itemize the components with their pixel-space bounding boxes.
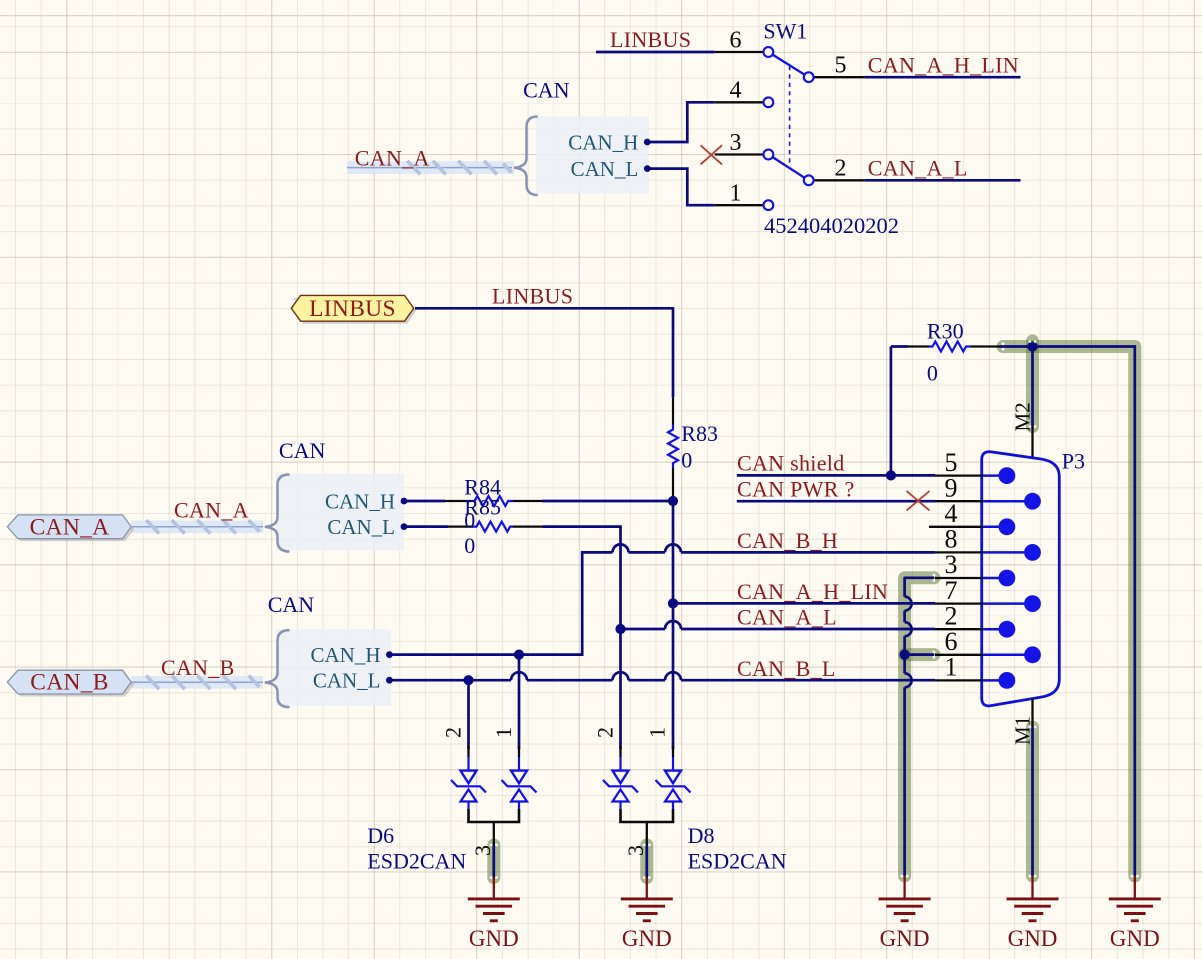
svg-text:M1: M1 bbox=[1011, 716, 1035, 745]
svg-text:GND: GND bbox=[622, 926, 672, 951]
wire M2 to R30 rail bbox=[1031, 347, 1034, 427]
svg-text:CAN: CAN bbox=[523, 78, 570, 103]
wire CAN_A_L to P3 pin 2 with hop bbox=[621, 621, 936, 629]
svg-text:0: 0 bbox=[464, 508, 475, 533]
harness connector brace (CAN_B) bbox=[265, 630, 290, 707]
svg-text:CAN: CAN bbox=[279, 438, 326, 463]
svg-text:SW1: SW1 bbox=[763, 19, 807, 44]
svg-text:P3: P3 bbox=[1062, 449, 1085, 474]
wire CAN_A_H_LIN to P3 pin 7 bbox=[673, 602, 935, 605]
svg-text:1: 1 bbox=[730, 180, 742, 206]
P3 pin 7 bbox=[935, 595, 1041, 612]
D8 TVS element left bbox=[603, 771, 638, 809]
wire R30 left leg down to CAN shield bbox=[890, 347, 893, 476]
resistor R85 bbox=[448, 522, 543, 532]
svg-text:CAN_A_H_LIN: CAN_A_H_LIN bbox=[868, 52, 1019, 77]
svg-text:2: 2 bbox=[835, 156, 847, 182]
svg-text:CAN: CAN bbox=[268, 592, 315, 617]
junction CAN_B_L / D6 pin 2 bbox=[463, 675, 473, 685]
wire GND net P3 pin 3 / pin 6 with hops bbox=[905, 578, 934, 876]
ground GND under D8 bbox=[621, 878, 673, 952]
D8 pin 2 lead bbox=[619, 746, 621, 758]
D8 pin 1 lead bbox=[672, 746, 674, 758]
svg-text:1: 1 bbox=[491, 727, 516, 738]
wire CAN_B_H to P3 pin 8 with hops bbox=[613, 544, 936, 552]
port CAN_A bbox=[7, 514, 134, 541]
svg-text:CAN_L: CAN_L bbox=[571, 157, 639, 181]
wire harness CAN_L to SW1 pin 1 bbox=[647, 169, 714, 206]
harness cable CAN_A (middle) bbox=[132, 520, 264, 534]
svg-text:CAN_B_H: CAN_B_H bbox=[737, 528, 838, 553]
P3 pin 5 bbox=[935, 467, 1015, 484]
SW1 pin 4 line bbox=[715, 101, 764, 103]
svg-text:CAN PWR ?: CAN PWR ? bbox=[737, 476, 855, 501]
wire CAN_A_L from SW1 pin 2 bbox=[865, 179, 1021, 182]
harness entry dot CAN_L (CAN_A) bbox=[401, 523, 408, 530]
harness cable CAN_B bbox=[132, 676, 264, 690]
svg-text:3: 3 bbox=[730, 130, 742, 156]
SW1 arm pole A bbox=[772, 54, 804, 74]
wire M1 to GND bbox=[1031, 727, 1034, 876]
harness entry dot CAN_H (top) bbox=[644, 139, 651, 146]
SW1 contact circles bbox=[764, 47, 814, 210]
P3 pin M1 line bbox=[1031, 698, 1033, 727]
wire CAN_H(A) to R84 bbox=[404, 500, 445, 503]
svg-text:CAN_A: CAN_A bbox=[174, 498, 249, 523]
wire D6 pin 2 drop bbox=[467, 680, 470, 749]
svg-text:CAN_L: CAN_L bbox=[313, 669, 381, 693]
wire R84 to LINBUS junction bbox=[543, 500, 674, 503]
harness connector brace (CAN_A middle) bbox=[265, 475, 290, 552]
D8 TVS element right bbox=[656, 771, 691, 809]
resistor R83 bbox=[668, 397, 678, 496]
connector P3 outline bbox=[982, 452, 1060, 706]
wire D6 pin 3 to GND bbox=[492, 845, 495, 878]
svg-text:CAN_H: CAN_H bbox=[568, 131, 638, 155]
svg-text:2: 2 bbox=[593, 727, 618, 738]
svg-text:R83: R83 bbox=[681, 421, 718, 446]
resistor R30 bbox=[891, 342, 1000, 352]
svg-text:6: 6 bbox=[730, 28, 742, 54]
junction P3 pin 6 / GND drop bbox=[900, 650, 910, 660]
wire harness CAN_H to SW1 pin 4 bbox=[647, 102, 714, 142]
P3 pin 8 bbox=[935, 544, 1041, 561]
wire R30 to GND rail right bbox=[1000, 347, 1135, 877]
svg-text:CAN_A_L: CAN_A_L bbox=[868, 156, 968, 181]
svg-text:D6: D6 bbox=[367, 823, 394, 848]
P3 pin 6 bbox=[935, 646, 1041, 663]
D8 bottom rail and pin 3 bbox=[621, 809, 674, 822]
P3 pin 9 bbox=[935, 493, 1041, 510]
P3 pin 2 bbox=[935, 621, 1015, 638]
harness connector brace (top) bbox=[514, 117, 538, 196]
highlight end markers bbox=[490, 340, 1139, 879]
harness entry dot CAN_H (CAN_A) bbox=[401, 498, 408, 505]
junction CAN shield / R30 bbox=[886, 470, 896, 480]
highlight glow GND net M1 of P3 bbox=[1026, 727, 1039, 876]
svg-text:CAN_B: CAN_B bbox=[30, 670, 109, 696]
SW1 pin 2 line bbox=[814, 179, 865, 181]
svg-text:LINBUS: LINBUS bbox=[610, 27, 691, 52]
svg-text:CAN_B_L: CAN_B_L bbox=[737, 656, 836, 681]
svg-text:2: 2 bbox=[441, 727, 466, 738]
SW1 gang dashed link bbox=[789, 66, 791, 168]
wire D6 pin 1 drop bbox=[518, 655, 521, 749]
harness box CAN (CAN_A middle) bbox=[276, 474, 404, 551]
D6 pin 2 lead bbox=[467, 746, 469, 758]
svg-text:CAN_L: CAN_L bbox=[327, 515, 395, 539]
ground GND pin3/6 net bbox=[879, 876, 931, 951]
svg-text:GND: GND bbox=[1008, 926, 1058, 951]
no-ERC marker at SW1 pin 3 bbox=[701, 145, 723, 164]
SW1 pin 1 line bbox=[715, 204, 764, 206]
wire CAN shield to P3 pin 5 bbox=[737, 474, 935, 477]
SW1 arm pole B bbox=[772, 157, 804, 178]
svg-text:CAN_A_L: CAN_A_L bbox=[737, 605, 837, 630]
svg-text:D8: D8 bbox=[688, 823, 715, 848]
P3 pin 4 bbox=[929, 518, 1015, 535]
svg-text:CAN_B: CAN_B bbox=[161, 655, 235, 680]
svg-text:0: 0 bbox=[681, 448, 692, 473]
svg-text:0: 0 bbox=[464, 533, 475, 558]
highlight glow GND net D8 pin3 bbox=[640, 845, 653, 878]
svg-text:CAN_A_H_LIN: CAN_A_H_LIN bbox=[737, 579, 888, 604]
svg-text:5: 5 bbox=[835, 53, 847, 79]
svg-text:CAN_A: CAN_A bbox=[355, 146, 430, 171]
switch SW1 bbox=[715, 47, 865, 210]
svg-text:GND: GND bbox=[880, 926, 930, 951]
SW1 pin 3 line bbox=[715, 153, 764, 155]
diode array D8 bbox=[603, 746, 691, 846]
svg-text:3: 3 bbox=[470, 845, 495, 856]
harness cable CAN_A (top) bbox=[347, 161, 514, 175]
wire LINBUS/CAN_A_H_LIN vertical down to D8 pin 1 bbox=[672, 501, 675, 749]
highlight glow GND net M2 of P3 bbox=[1026, 341, 1039, 427]
P3 pin M2 line bbox=[1031, 427, 1033, 459]
svg-text:GND: GND bbox=[469, 926, 519, 951]
SW1 pin 5 line bbox=[814, 76, 865, 78]
svg-text:CAN_A: CAN_A bbox=[30, 514, 110, 540]
harness entry dot CAN_L (CAN_B) bbox=[386, 677, 393, 684]
svg-text:CAN shield: CAN shield bbox=[737, 451, 845, 476]
svg-text:4: 4 bbox=[730, 78, 742, 104]
D6 pin 1 lead bbox=[518, 746, 520, 758]
wire CAN_B_H from harness up to pin 8 row bbox=[389, 552, 612, 654]
highlight glow GND net right of R30 bbox=[1003, 347, 1135, 877]
svg-text:1: 1 bbox=[645, 727, 670, 738]
harness box CAN (CAN_B) bbox=[276, 629, 391, 706]
svg-text:1: 1 bbox=[945, 653, 958, 682]
svg-text:ESD2CAN: ESD2CAN bbox=[688, 849, 787, 874]
svg-text:CAN_H: CAN_H bbox=[325, 490, 395, 514]
wire D8 pin 3 to GND bbox=[645, 845, 648, 878]
svg-text:LINBUS: LINBUS bbox=[309, 296, 396, 322]
ground GND right rail bbox=[1109, 876, 1161, 951]
D6 TVS element left bbox=[451, 771, 486, 809]
no-ERC marker on CAN PWR net bbox=[907, 491, 930, 511]
harness entry dot CAN_H (CAN_B) bbox=[386, 651, 393, 658]
svg-text:CAN_H: CAN_H bbox=[310, 643, 380, 667]
svg-text:452404020202: 452404020202 bbox=[764, 213, 899, 238]
port CAN_B bbox=[7, 670, 134, 697]
wire CAN_A_H_LIN from SW1 pin 5 bbox=[865, 76, 1021, 79]
highlight glow GND net pin3/pin6 of P3 bbox=[905, 578, 934, 876]
harness entry dot CAN_L (top) bbox=[644, 165, 651, 172]
harness box CAN (top, switch) bbox=[536, 117, 649, 194]
junction R30 / M2 bbox=[1027, 341, 1037, 351]
highlight glow GND net D6 pin3 bbox=[487, 845, 500, 878]
P3 pin 3 bbox=[935, 570, 1015, 587]
junction CAN_B_H / D6 pin 1 bbox=[514, 650, 524, 660]
diode array D6 bbox=[451, 746, 537, 846]
wire LINBUS to SW1 pin 6 bbox=[596, 51, 715, 54]
SW1 pin 6 line bbox=[715, 51, 764, 53]
svg-text:3: 3 bbox=[623, 845, 648, 856]
ground GND under M1 bbox=[1007, 876, 1059, 951]
wire LINBUS port to R83 bbox=[415, 308, 673, 397]
svg-text:ESD2CAN: ESD2CAN bbox=[367, 849, 466, 874]
svg-text:0: 0 bbox=[927, 361, 938, 386]
junction R83/R84 bbox=[668, 496, 678, 506]
wire CAN_A_L net from R85 down bbox=[543, 527, 621, 749]
svg-text:GND: GND bbox=[1110, 926, 1160, 951]
svg-text:R30: R30 bbox=[927, 319, 964, 344]
wire CAN_L(A) to R85 bbox=[404, 525, 448, 528]
resistor R84 bbox=[445, 496, 543, 506]
junction CAN_A_H_LIN tap bbox=[668, 598, 678, 608]
ground GND under D6 bbox=[468, 878, 520, 952]
svg-text:LINBUS: LINBUS bbox=[492, 284, 573, 309]
junction CAN_A_L tap bbox=[615, 624, 625, 634]
port LINBUS bbox=[291, 295, 416, 323]
D6 bottom rail and pin 3 bbox=[469, 809, 520, 822]
D6 TVS element right bbox=[502, 771, 537, 809]
wire CAN PWR ? to P3 pin 9 bbox=[737, 500, 935, 503]
P3 pin 1 bbox=[935, 672, 1015, 689]
wire CAN_B_L from harness to P3 pin 1 bbox=[389, 672, 935, 680]
